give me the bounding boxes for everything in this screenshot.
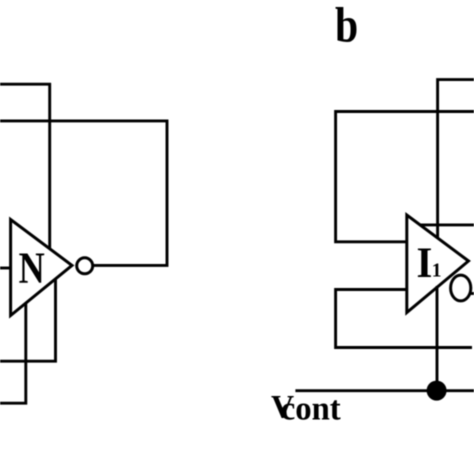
wire: top input stub horizontal (left cell) — [0, 83, 51, 86]
wire: Vcont rail — [295, 389, 474, 392]
wire: lower tap 2 from bottom edge of N down and left — [0, 303, 26, 403]
wire: feedback loop from output of N (right vertical and long horizontal to left edge) — [0, 121, 167, 266]
wire: second feedback, horizontal off right edge, down, into left edge of I1 — [336, 112, 474, 242]
wire: tap from upper edge of I1 going off right edge — [420, 223, 474, 226]
svg-text:b: b — [335, 0, 358, 53]
wire: top feedback of I1, horizontal off right edge then vertical down to top edge of I1 — [438, 80, 474, 238]
wire: bubble output stub off right edge — [471, 292, 474, 295]
inverter I1 triangle — [407, 215, 469, 313]
svg-text:I: I — [417, 240, 433, 287]
wire: output vertical from bottom edge of I1 down to Vcont node — [436, 286, 439, 391]
inversion bubble of I1 — [451, 275, 471, 301]
svg-text:N: N — [19, 243, 45, 292]
svg-text:cont: cont — [281, 390, 342, 427]
wire: lower feedback loop of I1 (from left edge down and right off edge) — [336, 290, 472, 348]
wire: input stub into left edge of N — [0, 267, 11, 270]
node: junction dot on Vcont rail — [427, 381, 447, 401]
inverter N triangle — [11, 220, 72, 316]
wire: lower tap 1 from bottom edge of N down and left — [0, 279, 56, 361]
inversion bubble of N — [77, 258, 93, 274]
wire: top input vertical down to inverter N upper edge — [48, 83, 51, 249]
svg-text:1: 1 — [432, 261, 442, 282]
